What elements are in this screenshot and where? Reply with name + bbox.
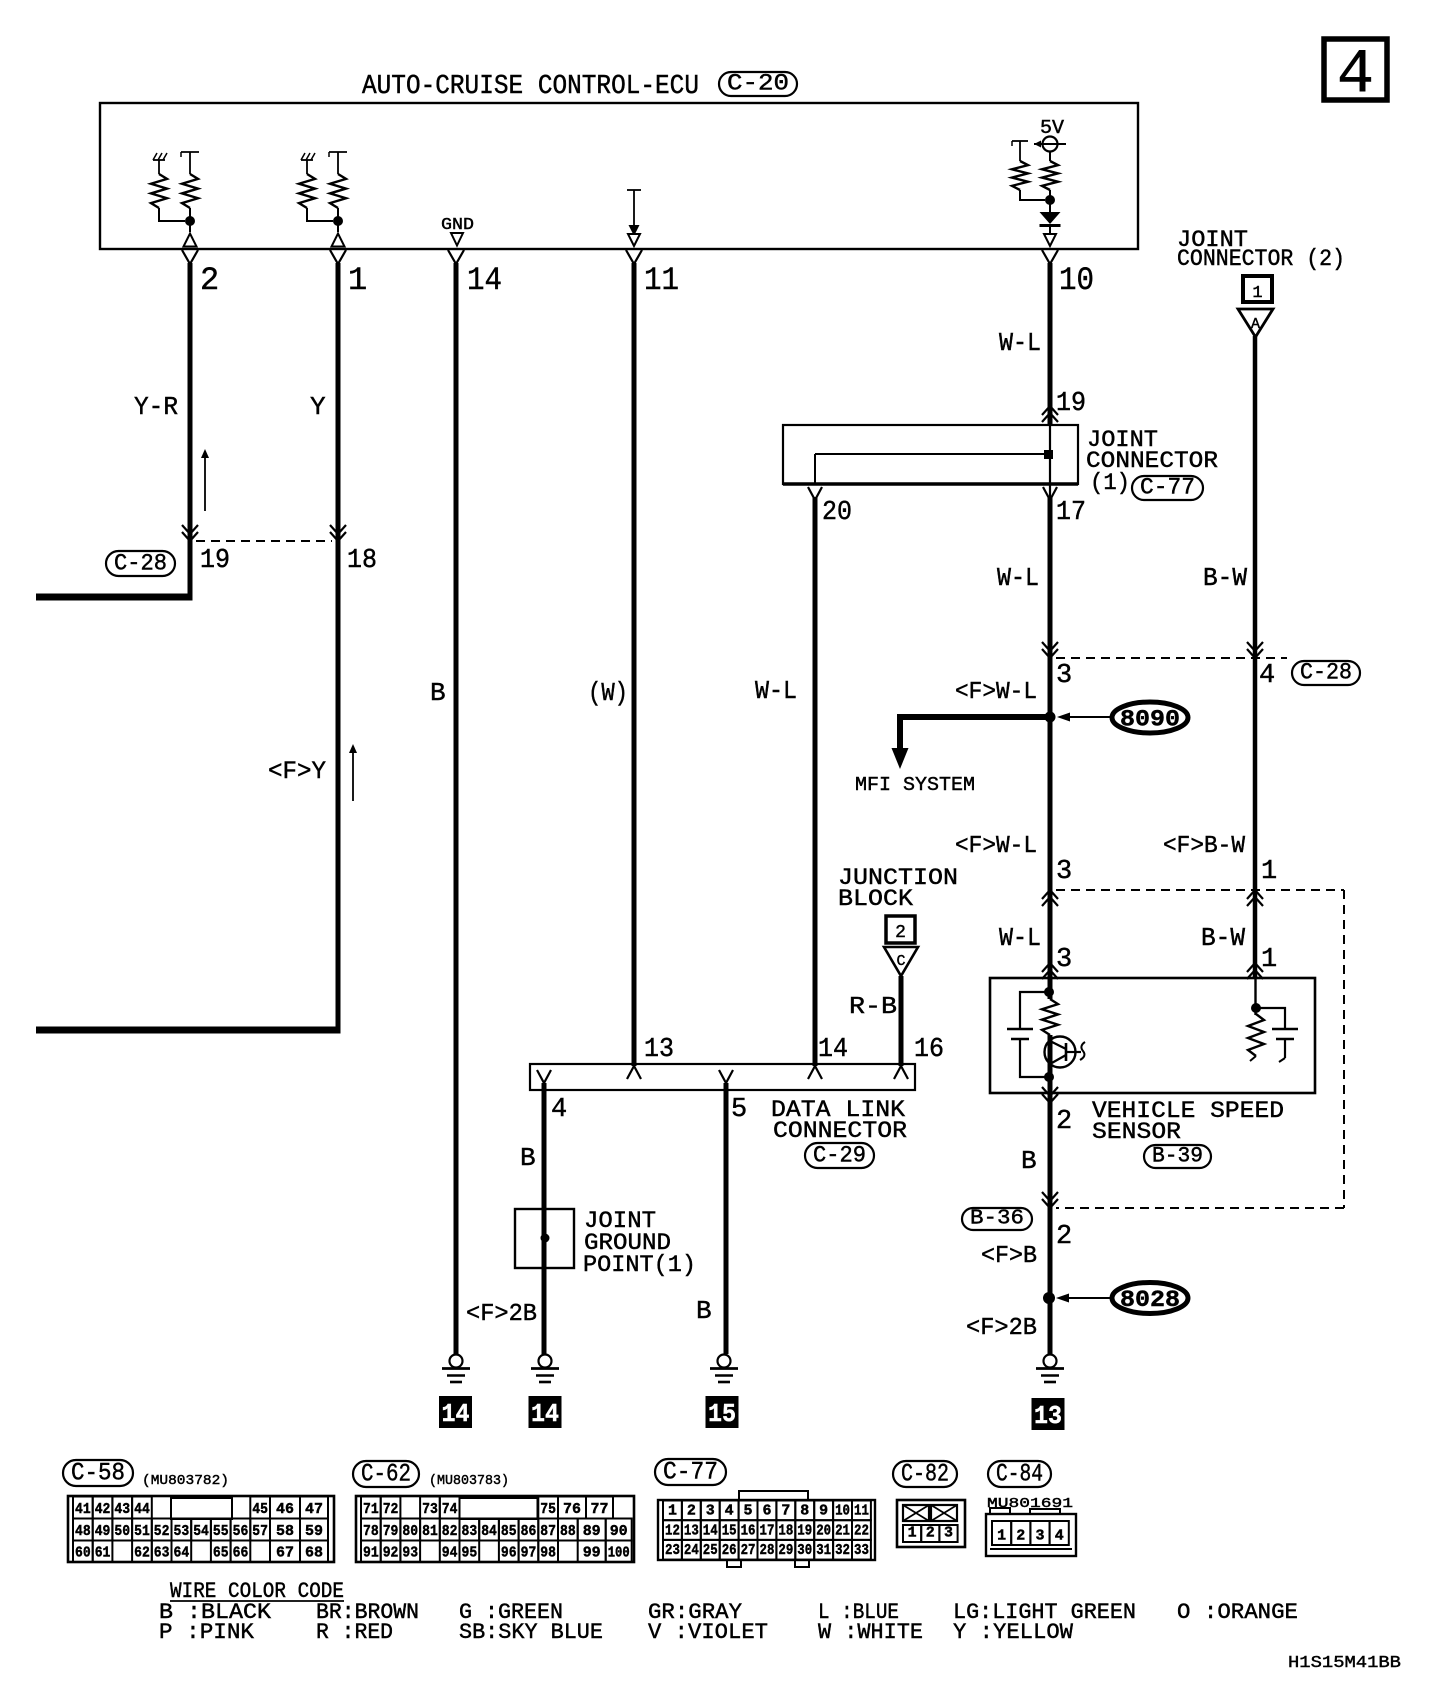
svg-text:C: C: [896, 953, 905, 970]
svg-text:98: 98: [540, 1545, 556, 1562]
svg-text:17: 17: [1056, 498, 1086, 528]
svg-text:R-B: R-B: [849, 994, 897, 1021]
svg-text:48: 48: [75, 1523, 91, 1540]
svg-text:<F>B-W: <F>B-W: [1163, 833, 1246, 860]
svg-text:46: 46: [276, 1501, 294, 1518]
svg-text:19: 19: [200, 546, 230, 576]
svg-text:32: 32: [835, 1542, 850, 1559]
svg-text:71: 71: [363, 1501, 379, 1518]
svg-text:1: 1: [348, 262, 367, 299]
svg-text:92: 92: [383, 1545, 399, 1562]
svg-text:B: B: [430, 678, 446, 708]
svg-text:B: B: [696, 1296, 712, 1326]
svg-text:10: 10: [835, 1503, 850, 1520]
svg-text:20: 20: [822, 498, 852, 528]
svg-text:88: 88: [560, 1523, 576, 1540]
svg-text:13: 13: [1034, 1401, 1062, 1431]
svg-text:49: 49: [95, 1523, 111, 1540]
svg-text:CONNECTOR: CONNECTOR: [773, 1118, 907, 1144]
svg-text:81: 81: [422, 1523, 438, 1540]
svg-text:60: 60: [75, 1545, 91, 1562]
svg-text:26: 26: [722, 1542, 737, 1559]
svg-text:25: 25: [703, 1542, 718, 1559]
svg-text:C-84: C-84: [996, 1460, 1043, 1489]
svg-text:3: 3: [706, 1503, 715, 1520]
svg-text:7: 7: [781, 1503, 790, 1520]
svg-text:23: 23: [665, 1542, 680, 1559]
svg-text:78: 78: [363, 1523, 379, 1540]
svg-text:9: 9: [819, 1503, 828, 1520]
svg-text:C-82: C-82: [901, 1460, 949, 1489]
svg-text:21: 21: [835, 1522, 850, 1539]
svg-text:4: 4: [1055, 1528, 1064, 1545]
svg-text:58: 58: [276, 1523, 294, 1540]
svg-text:18: 18: [347, 546, 377, 576]
svg-text:86: 86: [521, 1523, 537, 1540]
svg-text:68: 68: [305, 1545, 323, 1562]
svg-text:65: 65: [213, 1545, 229, 1562]
svg-text:33: 33: [854, 1542, 869, 1559]
svg-text:Y :YELLOW: Y :YELLOW: [953, 1620, 1074, 1645]
svg-text:52: 52: [154, 1523, 170, 1540]
svg-text:<F>2B: <F>2B: [966, 1315, 1037, 1342]
svg-text:3: 3: [1056, 661, 1072, 691]
svg-text:89: 89: [583, 1523, 601, 1540]
svg-text:C-77: C-77: [1140, 475, 1195, 501]
svg-text:96: 96: [501, 1545, 517, 1562]
svg-text:C-77: C-77: [663, 1458, 718, 1487]
svg-text:87: 87: [540, 1523, 556, 1540]
svg-text:O :ORANGE: O :ORANGE: [1177, 1600, 1298, 1625]
svg-text:(MU803782): (MU803782): [142, 1473, 229, 1489]
svg-text:<F>W-L: <F>W-L: [955, 679, 1037, 706]
svg-text:41: 41: [75, 1501, 91, 1518]
svg-text:POINT(1): POINT(1): [583, 1252, 696, 1278]
svg-text:2: 2: [1056, 1107, 1072, 1137]
svg-text:73: 73: [422, 1501, 438, 1518]
svg-text:A: A: [1251, 316, 1260, 333]
svg-text:6: 6: [762, 1503, 771, 1520]
svg-text:B: B: [1021, 1146, 1037, 1176]
svg-text:CONNECTOR (2): CONNECTOR (2): [1177, 246, 1345, 272]
svg-text:13: 13: [684, 1522, 699, 1539]
svg-text:B-39: B-39: [1152, 1144, 1203, 1169]
svg-text:59: 59: [305, 1523, 323, 1540]
svg-text:14: 14: [442, 1399, 470, 1429]
svg-text:56: 56: [233, 1523, 249, 1540]
svg-text:4: 4: [551, 1095, 567, 1125]
svg-text:51: 51: [134, 1523, 150, 1540]
svg-text:AUTO-CRUISE CONTROL-ECU: AUTO-CRUISE CONTROL-ECU: [362, 72, 699, 102]
svg-text:93: 93: [402, 1545, 418, 1562]
svg-text:15: 15: [722, 1522, 737, 1539]
svg-text:24: 24: [684, 1542, 699, 1559]
svg-text:1: 1: [1252, 284, 1262, 303]
svg-text:91: 91: [363, 1545, 379, 1562]
svg-text:14: 14: [703, 1522, 718, 1539]
svg-text:22: 22: [854, 1522, 869, 1539]
svg-text:8: 8: [800, 1503, 809, 1520]
svg-text:<F>B: <F>B: [981, 1243, 1037, 1270]
svg-text:C-29: C-29: [813, 1143, 866, 1169]
svg-text:16: 16: [914, 1035, 944, 1065]
svg-text:B-W: B-W: [1201, 923, 1245, 953]
svg-text:SENSOR: SENSOR: [1092, 1119, 1181, 1145]
svg-text:B-W: B-W: [1203, 563, 1247, 593]
svg-text:<F>2B: <F>2B: [466, 1301, 537, 1328]
svg-text:4: 4: [1337, 39, 1374, 110]
svg-text:Y-R: Y-R: [134, 392, 178, 422]
svg-text:(1): (1): [1090, 470, 1130, 496]
svg-text:11: 11: [644, 262, 679, 299]
svg-text:H1S15M41BB: H1S15M41BB: [1288, 1654, 1401, 1673]
svg-text:79: 79: [383, 1523, 399, 1540]
svg-text:19: 19: [797, 1522, 812, 1539]
svg-text:18: 18: [778, 1522, 793, 1539]
svg-text:3: 3: [1056, 945, 1072, 975]
svg-text:8028: 8028: [1120, 1287, 1180, 1313]
svg-text:5: 5: [731, 1095, 747, 1125]
svg-text:3: 3: [1056, 857, 1072, 887]
svg-text:85: 85: [501, 1523, 517, 1540]
svg-text:64: 64: [174, 1545, 190, 1562]
svg-text:43: 43: [114, 1501, 130, 1518]
svg-text:74: 74: [442, 1501, 458, 1518]
svg-text:63: 63: [154, 1545, 170, 1562]
svg-text:R :RED: R :RED: [316, 1620, 393, 1645]
svg-text:54: 54: [193, 1523, 209, 1540]
svg-text:80: 80: [402, 1523, 418, 1540]
svg-text:19: 19: [1056, 389, 1086, 419]
svg-text:20: 20: [816, 1522, 831, 1539]
svg-text:14: 14: [467, 262, 502, 299]
svg-text:11: 11: [854, 1503, 869, 1520]
svg-text:94: 94: [442, 1545, 458, 1562]
svg-text:3: 3: [1036, 1528, 1045, 1545]
svg-text:61: 61: [95, 1545, 111, 1562]
svg-text:2: 2: [1056, 1222, 1072, 1252]
svg-text:MFI SYSTEM: MFI SYSTEM: [855, 774, 975, 796]
svg-text:1: 1: [1261, 945, 1277, 975]
svg-text:53: 53: [174, 1523, 190, 1540]
svg-text:W-L: W-L: [997, 563, 1039, 593]
svg-text:V :VIOLET: V :VIOLET: [648, 1620, 768, 1645]
svg-text:P :PINK: P :PINK: [159, 1620, 255, 1645]
svg-text:66: 66: [233, 1545, 249, 1562]
svg-text:45: 45: [252, 1501, 268, 1518]
svg-text:97: 97: [521, 1545, 537, 1562]
svg-text:2: 2: [200, 262, 219, 299]
svg-text:8090: 8090: [1120, 707, 1180, 733]
svg-text:77: 77: [591, 1501, 609, 1518]
svg-text:100: 100: [608, 1545, 630, 1562]
svg-text:72: 72: [383, 1501, 399, 1518]
svg-text:2: 2: [687, 1503, 696, 1520]
svg-text:95: 95: [462, 1545, 478, 1562]
svg-text:16: 16: [741, 1522, 756, 1539]
svg-text:47: 47: [305, 1501, 323, 1518]
svg-text:W-L: W-L: [755, 676, 797, 706]
svg-text:13: 13: [644, 1035, 674, 1065]
svg-text:C-28: C-28: [1300, 660, 1352, 686]
svg-text:B-36: B-36: [970, 1208, 1024, 1231]
svg-text:84: 84: [481, 1523, 497, 1540]
svg-text:SB:SKY BLUE: SB:SKY BLUE: [459, 1620, 603, 1645]
svg-text:62: 62: [134, 1545, 150, 1562]
svg-text:2: 2: [1016, 1528, 1025, 1545]
svg-text:C-62: C-62: [361, 1460, 411, 1489]
svg-text:<F>Y: <F>Y: [268, 757, 326, 786]
svg-text:(W): (W): [588, 678, 628, 708]
svg-text:(MU803783): (MU803783): [429, 1473, 509, 1489]
svg-text:15: 15: [708, 1399, 736, 1429]
svg-text:14: 14: [531, 1399, 559, 1429]
svg-text:31: 31: [816, 1542, 831, 1559]
svg-text:30: 30: [797, 1542, 812, 1559]
svg-text:1: 1: [668, 1503, 677, 1520]
svg-text:4: 4: [725, 1503, 734, 1520]
svg-text:4: 4: [1259, 661, 1275, 691]
svg-text:1: 1: [908, 1525, 917, 1542]
svg-text:99: 99: [583, 1545, 601, 1562]
svg-text:44: 44: [134, 1501, 150, 1518]
svg-text:82: 82: [442, 1523, 458, 1540]
svg-text:1: 1: [997, 1528, 1006, 1545]
svg-text:83: 83: [462, 1523, 478, 1540]
svg-text:27: 27: [741, 1542, 756, 1559]
svg-text:W :WHITE: W :WHITE: [818, 1620, 923, 1645]
svg-text:BLOCK: BLOCK: [838, 886, 913, 912]
svg-text:14: 14: [818, 1035, 848, 1065]
svg-text:W-L: W-L: [999, 328, 1041, 358]
svg-text:28: 28: [760, 1542, 775, 1559]
svg-text:B: B: [520, 1143, 536, 1173]
svg-text:W-L: W-L: [999, 923, 1041, 953]
svg-text:C-58: C-58: [71, 1459, 125, 1488]
svg-text:55: 55: [213, 1523, 229, 1540]
svg-text:5: 5: [744, 1503, 753, 1520]
svg-text:5V: 5V: [1040, 117, 1065, 139]
svg-text:42: 42: [95, 1501, 111, 1518]
svg-text:C-20: C-20: [727, 71, 789, 97]
svg-text:75: 75: [540, 1501, 556, 1518]
svg-text:57: 57: [252, 1523, 268, 1540]
svg-text:Y: Y: [310, 392, 326, 422]
svg-text:90: 90: [610, 1523, 628, 1540]
svg-text:10: 10: [1059, 262, 1094, 299]
svg-text:2: 2: [895, 923, 906, 943]
svg-text:<F>W-L: <F>W-L: [955, 833, 1037, 860]
svg-text:50: 50: [114, 1523, 130, 1540]
svg-text:29: 29: [778, 1542, 793, 1559]
svg-text:C-28: C-28: [114, 551, 167, 577]
svg-text:12: 12: [665, 1522, 680, 1539]
svg-text:3: 3: [944, 1525, 953, 1542]
svg-text:17: 17: [760, 1522, 775, 1539]
svg-text:76: 76: [563, 1501, 581, 1518]
svg-text:67: 67: [276, 1545, 294, 1562]
svg-text:2: 2: [926, 1525, 935, 1542]
svg-text:1: 1: [1261, 857, 1277, 887]
